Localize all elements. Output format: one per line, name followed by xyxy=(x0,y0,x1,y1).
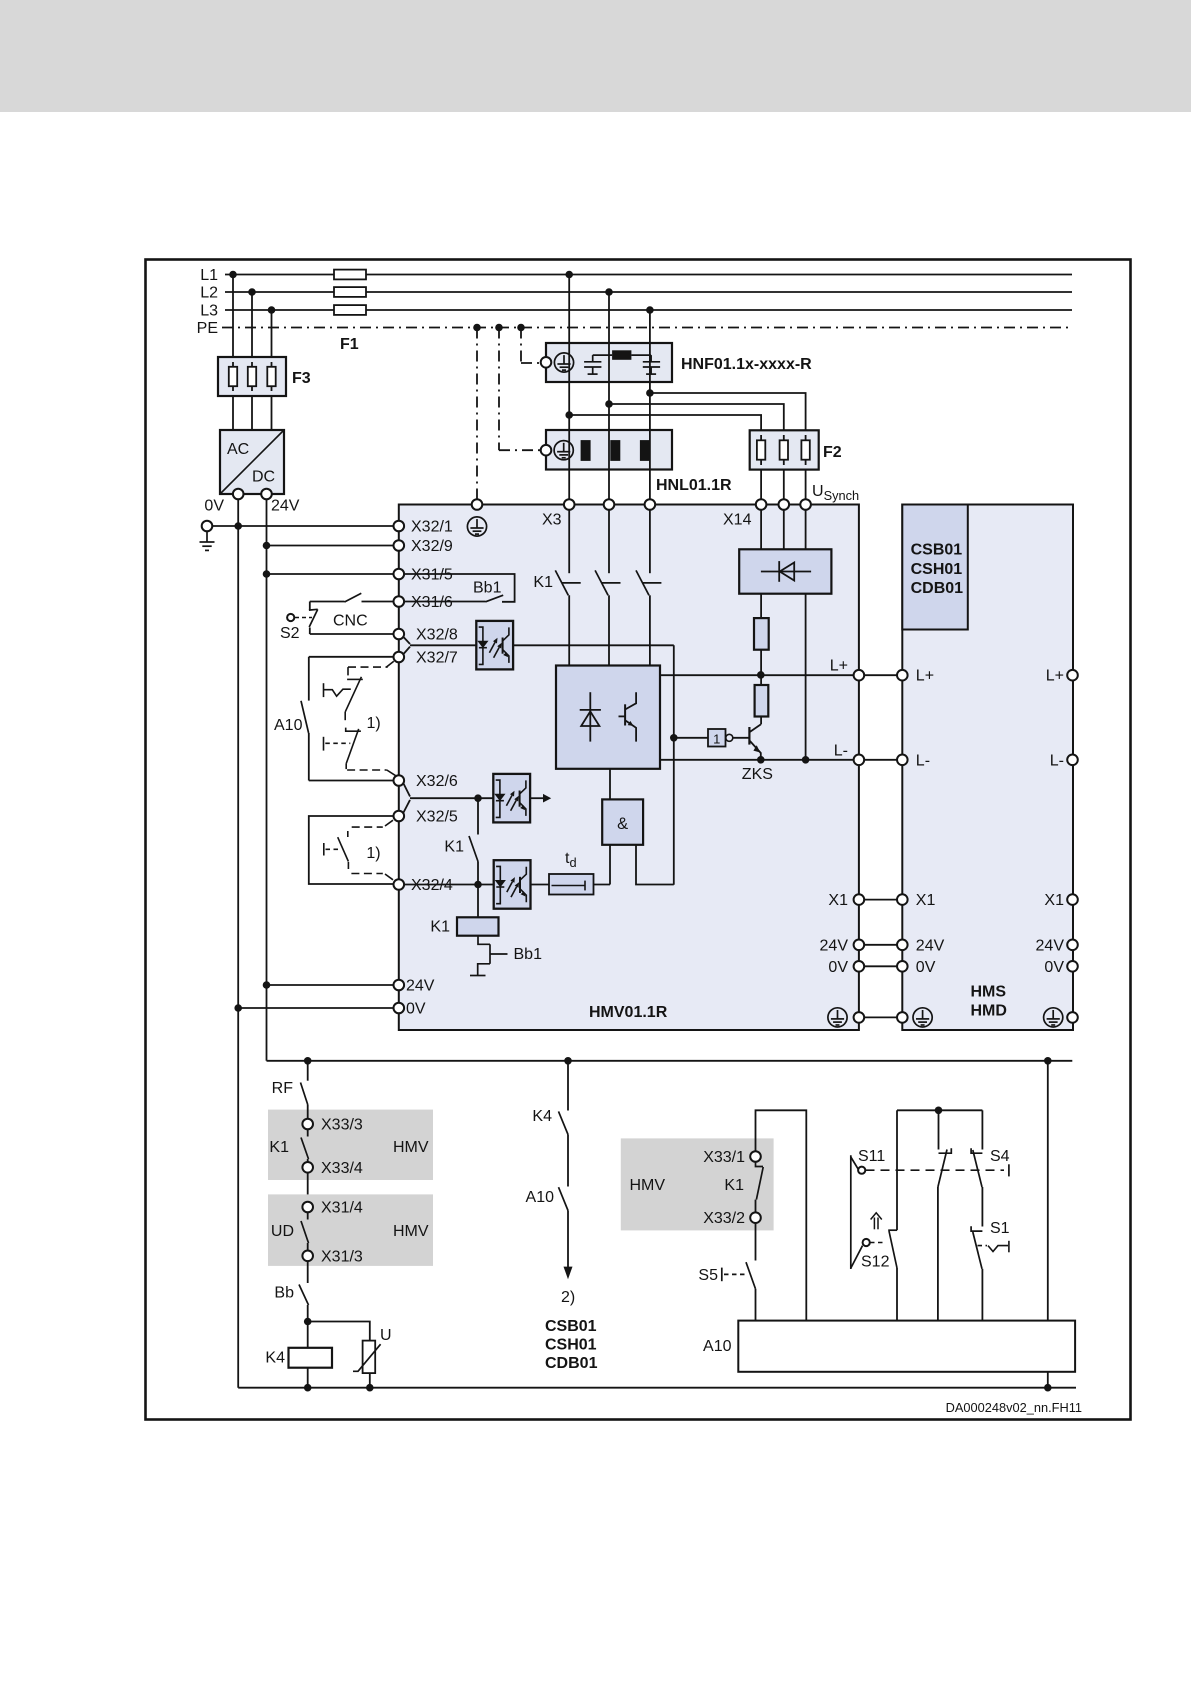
wire 24V to X31/5 xyxy=(267,573,394,575)
node RF branch xyxy=(304,1057,312,1065)
svg-text:U: U xyxy=(380,1327,392,1344)
grey box X31/4-X31/3 HMV xyxy=(268,1194,433,1266)
pin X32/5 xyxy=(394,811,405,822)
wire PE drop to HNF (dash-dot) xyxy=(520,328,522,364)
svg-text:X31/6: X31/6 xyxy=(411,594,453,611)
svg-text:DC: DC xyxy=(252,469,275,486)
wire X32/4 to opto3 xyxy=(404,884,494,886)
controller box A10 xyxy=(738,1321,1075,1372)
node L1-F3 tap xyxy=(229,271,237,279)
svg-text:K1: K1 xyxy=(269,1139,289,1156)
svg-text:X14: X14 xyxy=(723,512,752,529)
wire S2 to X32/8 xyxy=(310,633,394,635)
fuse F2 element 3 xyxy=(801,435,809,465)
node varistor 0V xyxy=(366,1384,374,1392)
node safety rail xyxy=(935,1107,943,1115)
wire PE to HNF pin (dash-dot) xyxy=(521,362,541,364)
AND gate box xyxy=(602,799,643,844)
dashed actuator frame lower xyxy=(348,820,393,880)
HNL choke core bar xyxy=(640,440,650,461)
svg-text:24V: 24V xyxy=(1036,937,1065,954)
wire phase3 HNF-HNL xyxy=(649,382,651,430)
up arrow symbol xyxy=(871,1213,882,1230)
svg-text:L-: L- xyxy=(916,752,930,769)
fuse F1 element in L3 xyxy=(334,305,366,315)
wire to inverter 1 xyxy=(674,737,708,739)
wire bubble to ZKS base xyxy=(733,737,750,739)
node PE tap 1 xyxy=(473,324,481,332)
pin HMS 0V right xyxy=(1067,961,1078,972)
node tap to F2-2 xyxy=(605,400,613,408)
HNF internal wire right xyxy=(631,354,651,356)
node K4 branch xyxy=(564,1057,572,1065)
node L3 phase tap xyxy=(646,306,654,314)
wire phase3 through HNL xyxy=(649,430,651,470)
wire HMV-HMS rung L- xyxy=(864,759,897,761)
svg-text:L+: L+ xyxy=(1046,668,1064,685)
thyristor symbol xyxy=(580,692,601,741)
wire to K1 coil xyxy=(477,862,479,918)
wire X14-1 down xyxy=(760,510,762,550)
wire PE drop to HNL (dash-dot) xyxy=(498,328,500,451)
svg-text:S11: S11 xyxy=(858,1148,885,1165)
svg-text:S5: S5 xyxy=(698,1267,718,1284)
node L2-F3 tap xyxy=(248,288,256,296)
wire AND input right leg xyxy=(636,845,674,885)
pin HMV 24V right xyxy=(854,940,865,951)
fuse block F2 xyxy=(750,430,819,469)
wire opto3 to td xyxy=(531,884,550,886)
contact S11 chain middle xyxy=(938,1148,951,1187)
svg-text:CDB01: CDB01 xyxy=(545,1355,598,1372)
svg-text:0V: 0V xyxy=(406,1001,426,1018)
pin HMS X1 left xyxy=(897,894,908,905)
pin X33/3 xyxy=(302,1119,313,1130)
svg-text:0V: 0V xyxy=(916,959,936,976)
diode symbol xyxy=(761,561,811,582)
pin HMV L- right xyxy=(854,755,865,766)
svg-text:F2: F2 xyxy=(823,444,842,461)
wire merge to opto1 xyxy=(410,644,476,646)
pin X32/8 xyxy=(394,629,405,640)
svg-text:X32/7: X32/7 xyxy=(416,650,458,667)
HNF internal wire left xyxy=(593,354,612,356)
svg-text:1: 1 xyxy=(713,732,720,747)
wire tap3 to F2 xyxy=(650,393,806,430)
node L+ tap xyxy=(757,671,765,679)
node L3-F3 tap xyxy=(268,306,276,314)
node 24V-X31/5 xyxy=(263,570,271,578)
wire HMV-HMS rung X1 xyxy=(864,899,897,901)
wire to varistor xyxy=(308,1322,370,1341)
svg-text:CDB01: CDB01 xyxy=(911,580,964,597)
S11 line terminal xyxy=(1008,1164,1010,1176)
wire Bb1 loop xyxy=(404,574,514,602)
svg-text:K1: K1 xyxy=(430,919,450,936)
wire X3-1 down xyxy=(568,510,570,573)
wire K4 branch upper xyxy=(567,1061,569,1111)
wire S2 upper stub xyxy=(309,602,311,611)
wire A10 to 0V rail xyxy=(1047,1372,1049,1388)
svg-text:HMV01.1R: HMV01.1R xyxy=(589,1004,668,1021)
contact S1 xyxy=(971,1226,982,1269)
wire L- line xyxy=(660,759,854,761)
wire F2-2 to X14 xyxy=(783,470,785,500)
mains choke HNL01 xyxy=(546,430,672,470)
svg-text:L-: L- xyxy=(1050,752,1064,769)
fuse F1 element in L1 xyxy=(334,270,366,280)
earth symbol HMV top xyxy=(467,517,486,536)
svg-text:24V: 24V xyxy=(271,498,300,515)
svg-text:0V: 0V xyxy=(828,959,848,976)
wire L3 to F3 xyxy=(271,310,273,357)
wire X31/4 to UD contact xyxy=(307,1212,309,1219)
svg-text:X1: X1 xyxy=(916,892,936,909)
svg-text:K1: K1 xyxy=(724,1177,744,1194)
node K1 drive tap xyxy=(474,794,482,802)
contact K4 blade xyxy=(559,1111,569,1134)
wire bottom 0V rail xyxy=(238,1387,1076,1389)
contact CNC blade xyxy=(345,593,362,602)
resistor R2 xyxy=(755,685,769,717)
node A10 0V xyxy=(1044,1384,1052,1392)
mains filter HNF01 xyxy=(546,343,672,382)
wire X3-3 down xyxy=(649,510,651,573)
svg-text:K4: K4 xyxy=(265,1350,285,1367)
pin X32/9 xyxy=(394,540,405,551)
wire phase1 through HNL xyxy=(568,430,570,470)
wire phase2 HNL to X3 xyxy=(608,470,610,500)
wire K1 NC to X33/2 xyxy=(755,1200,757,1213)
transistor Bb1 driver xyxy=(470,936,508,976)
wire PE bus (dash-dot) xyxy=(222,327,1072,329)
svg-text:L1: L1 xyxy=(200,267,218,284)
wire S1 to A10 xyxy=(981,1269,983,1321)
pin X31/6 xyxy=(394,596,405,607)
svg-text:Bb: Bb xyxy=(274,1285,294,1302)
contact A10 blade xyxy=(301,701,309,733)
node tap to F2-3 xyxy=(646,389,654,397)
svg-text:X32/1: X32/1 xyxy=(411,519,453,536)
svg-text:X31/4: X31/4 xyxy=(321,1200,363,1217)
power supply unit HMV01.1R block xyxy=(399,505,859,1031)
HNF capacitor right xyxy=(643,355,660,374)
wire A10 24V supply xyxy=(1047,1061,1049,1321)
contact Bb blade xyxy=(299,1285,309,1306)
earth symbol HMS right xyxy=(1044,1008,1063,1027)
time delay td box xyxy=(549,874,594,895)
svg-text:0V: 0V xyxy=(204,498,224,515)
svg-text:X32/5: X32/5 xyxy=(416,809,458,826)
contact RF blade xyxy=(301,1083,308,1105)
wire X32/5 to X32/4 loop xyxy=(309,816,394,884)
opto2 output arrow xyxy=(530,797,543,799)
contact K1 phase 3 xyxy=(636,570,661,595)
svg-text:X33/3: X33/3 xyxy=(321,1117,363,1134)
svg-text:K1: K1 xyxy=(444,839,464,856)
fuse F3 element 3 xyxy=(267,362,275,391)
svg-text:Bb1: Bb1 xyxy=(473,580,502,597)
wire phase 2 to rectifier xyxy=(608,595,610,665)
header grey bar xyxy=(0,0,1191,112)
wire tap1 to F2 xyxy=(569,415,761,430)
svg-text:CNC: CNC xyxy=(333,613,368,630)
wire X31/6 to Bb1 blade xyxy=(404,601,485,603)
pin X32/7 xyxy=(394,652,405,663)
contact 1) upper pair xyxy=(324,677,363,769)
node 0V-HMV xyxy=(234,1004,242,1012)
svg-text:24V: 24V xyxy=(406,978,435,995)
svg-text:X32/9: X32/9 xyxy=(411,538,453,555)
svg-text:AC: AC xyxy=(227,441,249,458)
pin HNL PE xyxy=(541,445,552,456)
wire HMV-HMS rung 0V xyxy=(864,965,897,967)
wire HMV-HMS rung 24V xyxy=(864,944,897,946)
svg-text:ZKS: ZKS xyxy=(742,766,773,783)
contact S4 xyxy=(971,1148,982,1187)
wire phase1 through HNF xyxy=(568,343,570,382)
pin S2 actuator xyxy=(287,614,294,621)
svg-text:Bb1: Bb1 xyxy=(514,946,543,963)
wire L1 phase down to HNF xyxy=(568,275,570,344)
wire middle leg lower xyxy=(937,1187,939,1321)
wire phase3 through HNF xyxy=(649,343,651,382)
pin 24V xyxy=(394,980,405,991)
svg-text:CSB01: CSB01 xyxy=(911,542,963,559)
wire HMV-HMS rung L+ xyxy=(864,674,897,676)
wire 24V to X32/9 xyxy=(267,545,394,547)
pin earth terminal xyxy=(202,521,213,532)
wire A10 loop lower xyxy=(308,733,310,781)
S12 actuator dashes xyxy=(870,1242,886,1244)
resistor R1 xyxy=(754,618,769,650)
wire F2-3 to X14 xyxy=(805,470,807,500)
wire HMV-HMS rung PE xyxy=(864,1016,897,1018)
pin X32/1 xyxy=(394,521,405,532)
arrow to drive controllers xyxy=(564,1267,573,1280)
earth symbol in HNL xyxy=(554,441,573,460)
drawing frame xyxy=(146,260,1131,1420)
S2 actuator dashes xyxy=(295,617,312,619)
wire X32/7 merge xyxy=(404,647,411,654)
wire F2-1 to X14 xyxy=(760,470,762,500)
wire to X32/6 xyxy=(309,780,394,782)
wire phase2 through HNL xyxy=(608,430,610,470)
S11 actuator dashes xyxy=(866,1169,1005,1171)
svg-text:S1: S1 xyxy=(990,1220,1010,1237)
wire S5 to A10 xyxy=(755,1289,757,1321)
wire L+ to R2 xyxy=(760,675,762,685)
wire R1 to L+ xyxy=(760,650,762,675)
wire X14-3 down xyxy=(805,510,807,550)
wire F3 to AC/DC 3 xyxy=(271,396,273,430)
svg-text:X1: X1 xyxy=(828,892,848,909)
wire X14-2 down xyxy=(783,510,785,550)
pin 0V xyxy=(394,1003,405,1014)
wire 0V rail xyxy=(237,499,239,1387)
inner box CSB01 group xyxy=(902,505,968,630)
pin S11 actuator xyxy=(858,1167,865,1174)
wire Bb to K4 coil xyxy=(307,1305,309,1348)
fuse F3 element 2 xyxy=(248,362,256,391)
svg-text:S4: S4 xyxy=(990,1148,1010,1165)
contact UD blade xyxy=(301,1221,309,1243)
pin X14-1 xyxy=(756,499,767,510)
relay coil K4 xyxy=(289,1348,333,1368)
pin HNF PE xyxy=(541,357,552,368)
wire CNC right xyxy=(362,601,394,603)
wire blade to X33/4 xyxy=(307,1159,309,1162)
wire S4 to S1 xyxy=(981,1187,983,1227)
optocoupler U1 (X32/8-X32/7) xyxy=(476,621,513,670)
wire X32/8 merge xyxy=(404,637,411,644)
pin X33/4 xyxy=(302,1162,313,1173)
wire earth to X32/1 xyxy=(212,525,393,527)
wire PE drop to HMV (dash-dot) xyxy=(476,328,478,500)
svg-text:24V: 24V xyxy=(916,937,945,954)
node L1 phase tap xyxy=(565,271,573,279)
transistor ZKS xyxy=(749,724,760,759)
node PE tap 2 xyxy=(495,324,503,332)
wire phase1 HNF-HNL xyxy=(568,382,570,430)
wire S12 leg upper xyxy=(896,1110,898,1230)
wire F3 to AC/DC 1 xyxy=(232,396,234,430)
wire merge to opto2 xyxy=(410,797,493,799)
fuse F3 element 1 xyxy=(229,362,237,391)
wire X3-2 down xyxy=(608,510,610,573)
svg-text:X33/1: X33/1 xyxy=(703,1149,745,1166)
svg-text:1): 1) xyxy=(367,715,381,732)
optocoupler U2 (X32/6-X32/5) xyxy=(493,774,530,823)
svg-text:&: & xyxy=(617,815,628,833)
svg-text:HMV: HMV xyxy=(393,1223,429,1240)
contact K1 phase 2 xyxy=(595,570,620,595)
wire L3 phase down to HNF xyxy=(649,310,651,343)
td symbol xyxy=(552,881,586,891)
pin X3-2 xyxy=(604,499,615,510)
wire K4 to A10 contact xyxy=(567,1135,569,1187)
svg-text:HNL01.1R: HNL01.1R xyxy=(656,477,732,494)
HNL choke core bar xyxy=(610,440,620,461)
svg-text:X31/3: X31/3 xyxy=(321,1248,363,1265)
A10 dashed actuator frame upper xyxy=(347,661,395,775)
HNF capacitor left xyxy=(584,355,601,374)
earth symbol in HNF xyxy=(554,353,573,372)
wire RF upper xyxy=(307,1061,309,1081)
pin HMS L- right xyxy=(1067,755,1078,766)
node A10 supply branch xyxy=(1044,1057,1052,1065)
wire L3 bus xyxy=(225,309,1072,311)
node PE tap 3 xyxy=(517,324,525,332)
pin HMS L+ right xyxy=(1067,670,1078,681)
wire 24V rail xyxy=(266,499,268,1061)
contact K1 phase 1 xyxy=(555,570,580,595)
wire varistor to 0V rail xyxy=(369,1373,371,1388)
svg-text:X33/2: X33/2 xyxy=(703,1210,745,1227)
wire 24V to HMV 24V pin xyxy=(267,984,394,986)
pin X32/4 xyxy=(394,879,405,890)
svg-text:X31/5: X31/5 xyxy=(411,567,453,584)
node ZKS branch xyxy=(670,734,678,742)
svg-text:S12: S12 xyxy=(861,1254,890,1271)
svg-text:DA000248v02_nn.FH11: DA000248v02_nn.FH11 xyxy=(946,1400,1082,1415)
svg-text:X32/4: X32/4 xyxy=(411,877,453,894)
pin X31/3 xyxy=(302,1251,313,1262)
wire L+ line xyxy=(660,674,854,676)
pin HMS L+ left xyxy=(897,670,908,681)
svg-text:HMV: HMV xyxy=(393,1139,429,1156)
svg-text:24V: 24V xyxy=(820,937,849,954)
svg-text:HMV: HMV xyxy=(630,1177,666,1194)
wire X32/6 merge xyxy=(404,784,411,797)
drive block HMS/HMD xyxy=(902,505,1073,1031)
relay coil K1 xyxy=(457,917,499,935)
svg-text:L2: L2 xyxy=(200,285,218,302)
inverter output bubble xyxy=(726,734,733,741)
node tap to F2-1 xyxy=(565,411,573,419)
ground symbol xyxy=(200,531,215,550)
svg-text:A10: A10 xyxy=(703,1338,732,1355)
fuse block F3 xyxy=(218,357,286,396)
logic inverter 1 box xyxy=(708,729,726,747)
wire R2 to ZKS collector xyxy=(760,717,762,725)
fuse F2 element 2 xyxy=(780,435,788,465)
pin X14-2 xyxy=(779,499,790,510)
wire L2 bus xyxy=(225,291,1072,293)
wire td to AND xyxy=(594,884,611,886)
svg-text:2): 2) xyxy=(561,1289,575,1306)
node 0V-X32/1 xyxy=(234,522,242,530)
wire L2 phase down to HNF xyxy=(608,292,610,343)
AC/DC diagonal xyxy=(220,430,284,494)
wire L1 bus xyxy=(225,274,1072,276)
wire A10 to arrow xyxy=(567,1211,569,1268)
contact K1 blade bottom xyxy=(301,1138,309,1160)
wire 0V to HMV 0V pin xyxy=(238,1007,393,1009)
HNL choke core bar xyxy=(581,440,591,461)
wire phase1 HNL to X3 xyxy=(568,470,570,500)
mechanical link S11-S12 xyxy=(851,1155,863,1269)
node L- ZKS emitter xyxy=(757,756,765,764)
pin HMS PE right xyxy=(1067,1012,1078,1023)
wire CNC left xyxy=(310,601,345,603)
fuse F2 element 1 xyxy=(757,435,765,465)
wire A10 loop upper xyxy=(308,657,310,701)
wire X33/2 to S5 xyxy=(755,1223,757,1261)
contact S2 seat xyxy=(309,608,318,611)
pin AC/DC 0V xyxy=(233,489,244,500)
contact K1 NC xyxy=(756,1162,764,1200)
wire L2 to F3 xyxy=(251,292,253,357)
wire X32/7 left xyxy=(309,656,394,658)
svg-text:CSB01: CSB01 xyxy=(545,1318,597,1335)
wire X33/3 to K1 contact xyxy=(307,1129,309,1136)
wire tap2 to F2 xyxy=(609,404,784,430)
wire X33/1 loop xyxy=(756,1110,807,1320)
wire K4 coil to 0V rail xyxy=(307,1368,309,1388)
node K4 0V xyxy=(304,1384,312,1392)
wire S2 lower stub xyxy=(309,628,311,635)
svg-text:0V: 0V xyxy=(1044,959,1064,976)
grey box X33/1-X33/2 HMV xyxy=(621,1138,774,1230)
wire UD to X31/3 xyxy=(307,1243,309,1251)
pin X32/6 xyxy=(394,775,405,786)
pin HMS 24V left xyxy=(897,940,908,951)
fuse F1 element in L2 xyxy=(334,287,366,297)
wire F3 to AC/DC 2 xyxy=(251,396,253,430)
contact S5 xyxy=(722,1262,756,1289)
pin X14-3 xyxy=(800,499,811,510)
